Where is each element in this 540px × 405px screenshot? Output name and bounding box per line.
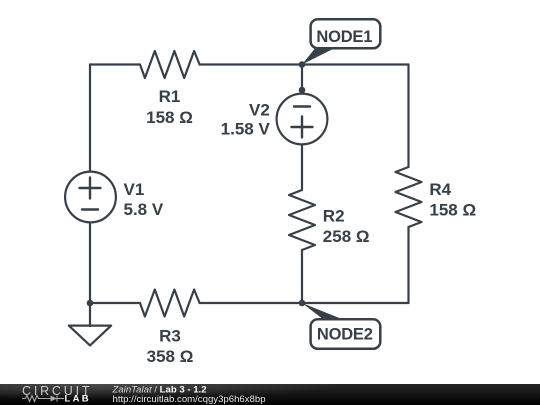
wire node1 to V2 — [301, 65, 303, 94]
junction dot ground node — [87, 300, 94, 307]
svg-text:V2: V2 — [249, 100, 270, 119]
junction node dot NODE2 — [299, 300, 306, 307]
svg-text:R2: R2 — [323, 206, 345, 225]
svg-text:258 Ω: 258 Ω — [323, 227, 370, 246]
wire left vertical lower — [89, 223, 91, 303]
svg-text:5.8 V: 5.8 V — [124, 200, 164, 219]
svg-text:158 Ω: 158 Ω — [146, 108, 193, 127]
svg-text:V1: V1 — [124, 180, 145, 199]
svg-text:R1: R1 — [159, 87, 181, 106]
resistor R4 — [396, 167, 422, 227]
wire right vertical upper — [407, 65, 409, 168]
resistor R2 — [289, 190, 315, 250]
R3 value label — [147, 327, 194, 367]
V2 value label — [221, 100, 271, 138]
node label NODE2 — [311, 319, 381, 349]
R1 value label — [146, 87, 193, 127]
wire top right segment — [302, 63, 409, 65]
svg-text:http://circuitlab.com/cqgy3p6h: http://circuitlab.com/cqgy3p6h6x8bp — [113, 394, 266, 405]
R4 value label — [429, 180, 476, 220]
wire left vertical upper — [89, 65, 91, 172]
svg-text:358 Ω: 358 Ω — [147, 347, 194, 366]
svg-text:1.58 V: 1.58 V — [221, 120, 271, 139]
svg-text:158 Ω: 158 Ω — [429, 201, 476, 220]
svg-text:NODE1: NODE1 — [316, 28, 372, 46]
svg-text:R3: R3 — [159, 327, 181, 346]
R2 value label — [323, 206, 370, 246]
V1 value label — [124, 180, 164, 219]
resistor R1 — [140, 51, 200, 78]
svg-text:LAB: LAB — [65, 393, 91, 404]
wire top-left segment — [90, 63, 140, 65]
junction node dot NODE1 — [299, 61, 306, 68]
resistor R3 — [140, 290, 200, 317]
voltage source V1 — [65, 172, 116, 223]
voltage source V2 — [277, 94, 328, 145]
wire right vertical lower — [407, 227, 409, 303]
NODE2 pointer wedge — [302, 303, 348, 322]
wire bottom right segment — [200, 302, 409, 304]
svg-text:R4: R4 — [429, 180, 451, 199]
node label NODE1 — [311, 19, 381, 48]
NODE1 pointer wedge — [302, 47, 338, 65]
wire V2 to R2 — [301, 145, 303, 190]
wire bottom left segment — [90, 302, 140, 304]
wire top middle segment — [200, 63, 302, 65]
terminal dot V2 top — [299, 87, 306, 94]
footer bar — [0, 384, 540, 405]
wire R2 to bottom — [301, 250, 303, 303]
wire ground stub — [89, 303, 91, 326]
ground symbol — [69, 326, 111, 346]
svg-text:NODE2: NODE2 — [317, 326, 373, 344]
